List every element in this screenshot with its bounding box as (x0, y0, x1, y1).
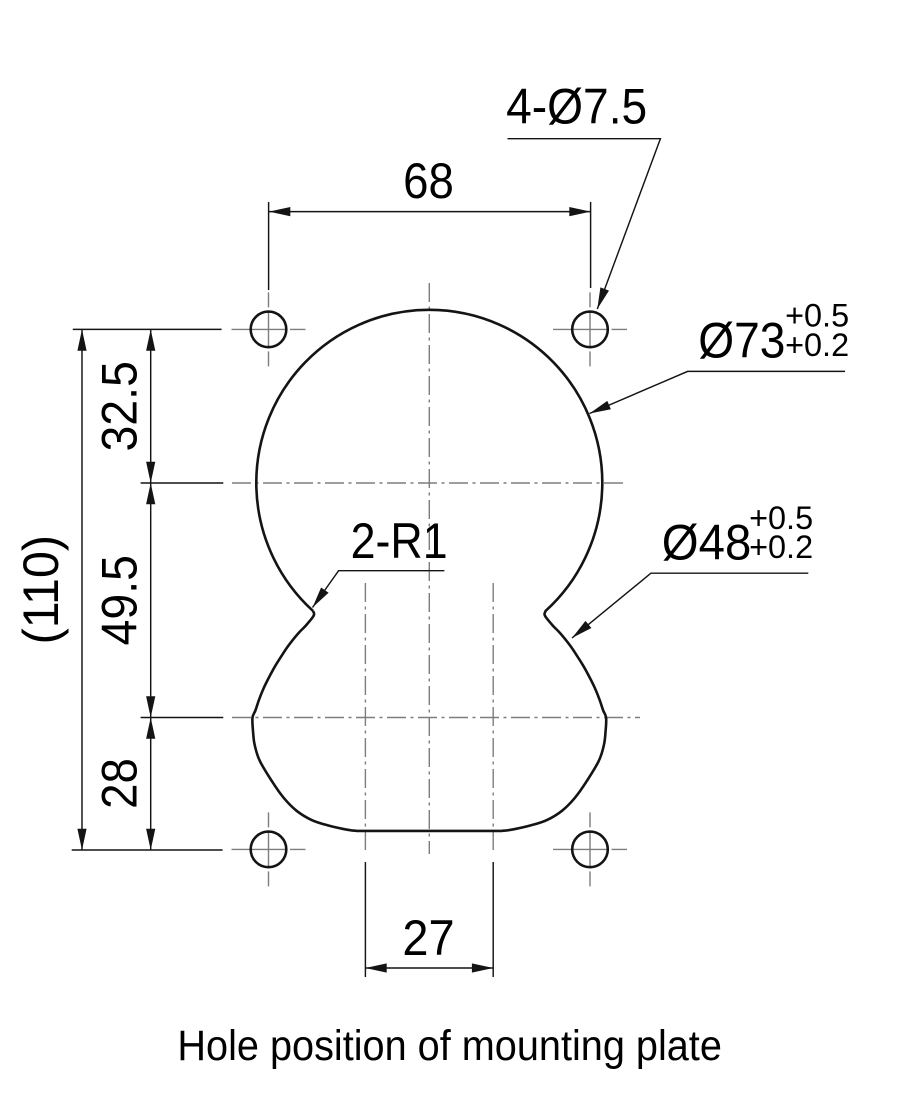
svg-text:Ø48: Ø48 (662, 515, 752, 571)
svg-text:28: 28 (91, 758, 147, 809)
svg-text:49.5: 49.5 (91, 555, 147, 646)
svg-text:Hole position of mounting plat: Hole position of mounting plate (177, 1023, 722, 1070)
svg-text:32.5: 32.5 (91, 361, 147, 452)
svg-text:Ø73: Ø73 (698, 312, 785, 368)
svg-text:+0.2: +0.2 (785, 327, 849, 363)
svg-text:(110): (110) (13, 535, 69, 644)
svg-text:68: 68 (403, 153, 454, 209)
svg-text:27: 27 (402, 910, 454, 966)
svg-text:+0.2: +0.2 (749, 529, 813, 565)
svg-text:2-R1: 2-R1 (351, 513, 448, 569)
svg-text:4-Ø7.5: 4-Ø7.5 (506, 78, 647, 134)
